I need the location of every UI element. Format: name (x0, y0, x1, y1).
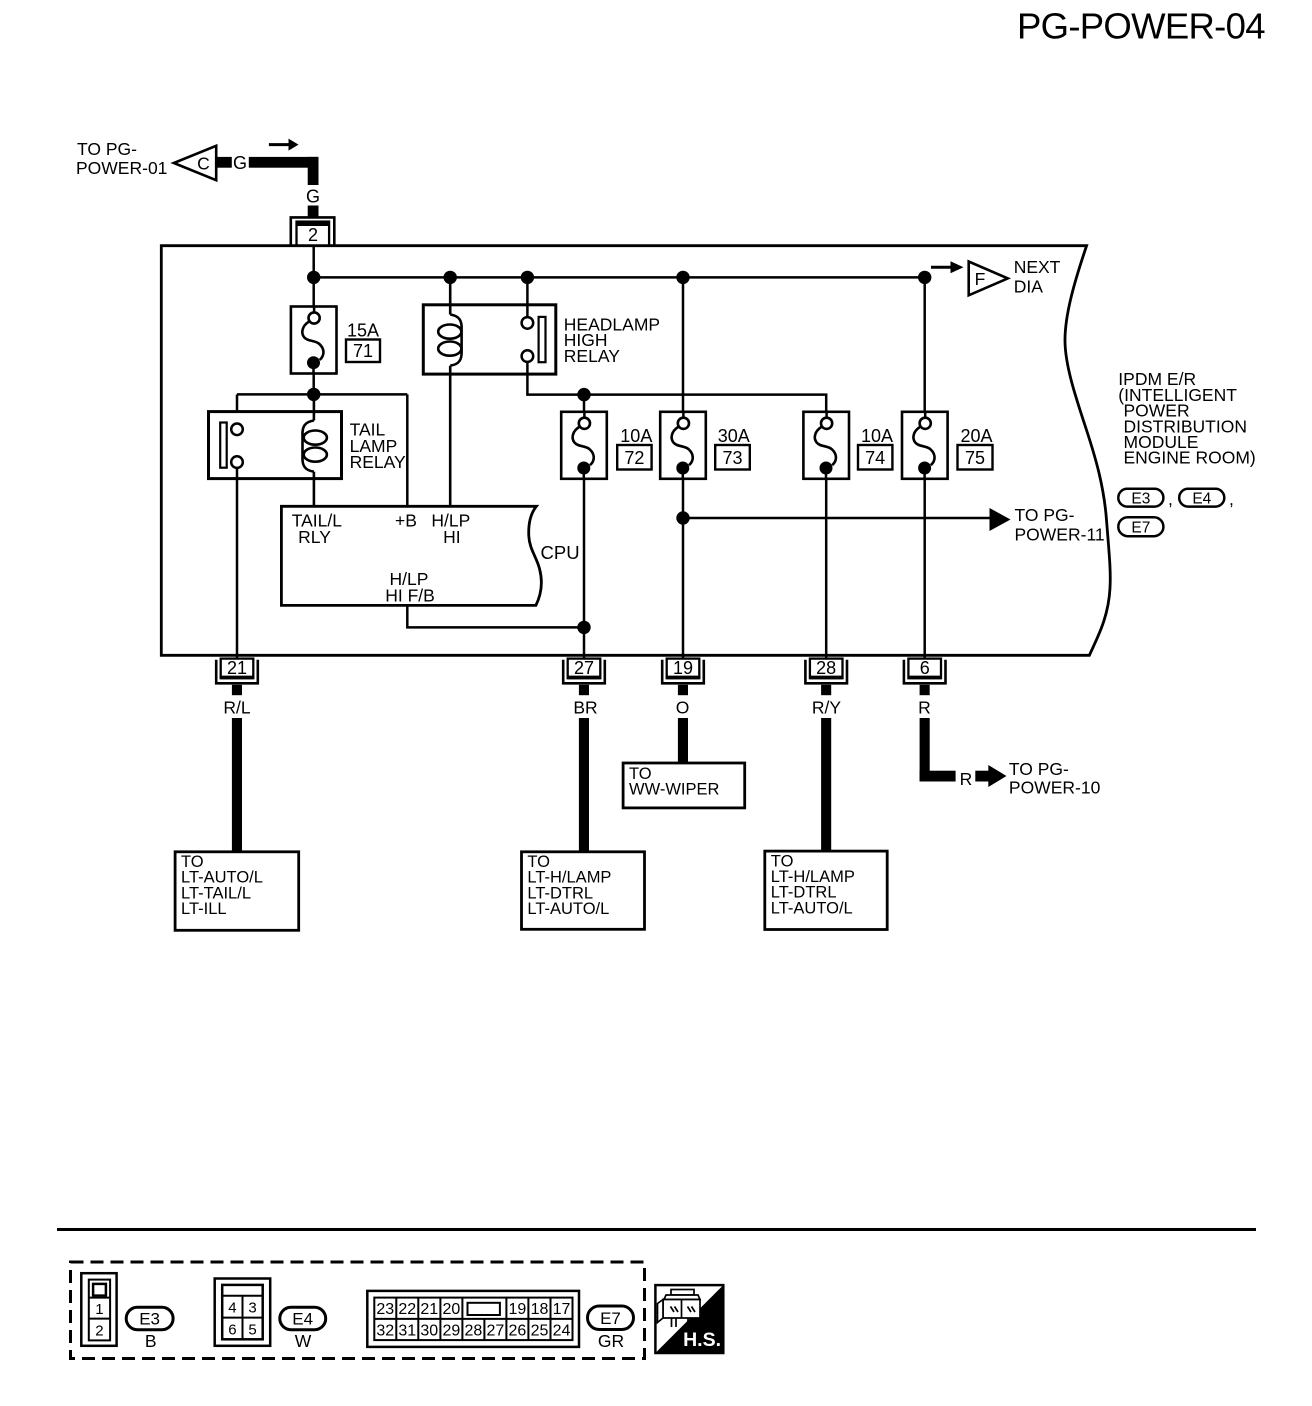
svg-text:6: 6 (920, 658, 930, 678)
svg-text:28: 28 (816, 658, 836, 678)
tail lamp relay contact circles (231, 424, 243, 436)
node junction dot bus/headlamp relay coil (444, 271, 457, 284)
node junction dot bus end/fuse75 (918, 271, 931, 284)
wire fuse 75 to connector 6 (923, 479, 926, 658)
svg-text:B: B (145, 1331, 157, 1351)
label 74 box (858, 445, 892, 470)
svg-text:,: , (1168, 489, 1173, 509)
IPDM E/R box outline (torn right edge) (161, 246, 1110, 656)
svg-text:R/Y: R/Y (812, 698, 842, 718)
connector 19 pin box (667, 659, 700, 679)
wire G thick vertical (308, 157, 319, 185)
svg-text:24: 24 (553, 1323, 571, 1340)
headlamp relay contact bar (539, 317, 546, 362)
relay: headlamp high relay box (423, 305, 556, 374)
svg-text:WW-WIPER: WW-WIPER (629, 781, 720, 799)
svg-text:POWER-11: POWER-11 (1015, 524, 1105, 544)
fuse 75 20A (902, 412, 948, 479)
label 72 box (617, 445, 651, 470)
fuse 74 10A (803, 412, 849, 479)
connector 21 shell (216, 660, 258, 684)
box TO LT-H/LAMP LT-DTRL LT-AUTO/L (left) (522, 852, 645, 930)
connector 28 pin box (810, 659, 843, 679)
wire tail relay feed horizontal (237, 393, 407, 396)
wire stub 21 (232, 685, 242, 695)
svg-text:POWER-01: POWER-01 (76, 158, 167, 178)
E7 column dividers bottom row (396, 1319, 550, 1340)
svg-text:27: 27 (487, 1323, 505, 1340)
wire to PG-POWER-11 (683, 517, 990, 520)
svg-text:5: 5 (248, 1321, 256, 1338)
CPU box (torn right edge) (281, 506, 541, 605)
wire fuse 72 to connector 27 (583, 479, 586, 658)
svg-text:HI: HI (443, 527, 461, 547)
connector face E7 inner (374, 1298, 572, 1341)
svg-text:17: 17 (553, 1301, 571, 1318)
wire fuse 71 to junction (312, 374, 315, 395)
svg-text:CPU: CPU (541, 542, 580, 563)
svg-text:H.S.: H.S. (683, 1329, 721, 1351)
svg-text:TO PG-: TO PG- (77, 139, 137, 159)
wire stub 27 (579, 685, 589, 695)
wire BR thick (579, 718, 589, 852)
fuse 72 10A (561, 412, 607, 479)
box TO LT-H/LAMP LT-DTRL LT-AUTO/L (right) (765, 851, 887, 929)
connector oval E4 legend (280, 1307, 326, 1329)
svg-text:10A: 10A (620, 426, 652, 446)
connector face E4 top band (222, 1295, 263, 1297)
H.S. icon connector glyph (658, 1290, 701, 1328)
H.S. icon square (655, 1285, 723, 1353)
node junction dot bus/headlamp relay contact (521, 271, 534, 284)
svg-text:C: C (197, 154, 210, 174)
connector 6 shell (904, 660, 946, 684)
legend dashed box (71, 1262, 645, 1359)
svg-text:E3: E3 (139, 1310, 160, 1329)
connector 28 shell (805, 660, 847, 684)
svg-text:R: R (960, 769, 973, 789)
svg-text:6: 6 (228, 1321, 236, 1338)
node junction dot fuse73/PG-POWER-11 (676, 511, 689, 524)
svg-text:20A: 20A (961, 426, 993, 446)
svg-text:RELAY: RELAY (350, 452, 406, 472)
thick arrow to PG-POWER-10 (975, 771, 989, 782)
triangle connector F next dia (969, 262, 1008, 296)
connector face E4 grid (242, 1296, 244, 1340)
svg-text:26: 26 (509, 1323, 527, 1340)
svg-text:29: 29 (443, 1323, 461, 1340)
svg-text:ENGINE ROOM): ENGINE ROOM) (1124, 448, 1256, 468)
E7 top row pin numbers (376, 1301, 570, 1318)
svg-text:RLY: RLY (298, 527, 331, 547)
node junction dot fuse71/tail relay (307, 388, 320, 401)
connector face E4 inner (222, 1285, 263, 1339)
connector face E3 inner (89, 1280, 110, 1341)
svg-text:32: 32 (376, 1323, 394, 1340)
svg-text:71: 71 (353, 341, 373, 361)
connector face E7 outer (367, 1291, 579, 1347)
svg-text:DIA: DIA (1014, 276, 1043, 296)
label 73 box (715, 445, 750, 470)
wire junction to fuse 72 (583, 395, 586, 412)
connector face E3 cell dividers (89, 1297, 110, 1299)
box TO LT-AUTO/L LT-TAIL/L LT-ILL (175, 852, 299, 931)
svg-text:18: 18 (531, 1301, 549, 1318)
wire G thick stub from triangle (216, 157, 232, 168)
svg-text:G: G (233, 153, 247, 173)
label 75 box (958, 445, 993, 470)
connector oval E7 legend (588, 1306, 634, 1330)
svg-text:R: R (918, 698, 931, 718)
wire R thick horizontal (920, 771, 956, 782)
svg-text:23: 23 (376, 1301, 394, 1318)
svg-text:74: 74 (865, 448, 885, 468)
svg-text:19: 19 (673, 658, 693, 678)
svg-text:PG-POWER-04: PG-POWER-04 (1017, 6, 1265, 47)
svg-text:19: 19 (509, 1301, 527, 1318)
connector face E3 tab (93, 1284, 106, 1296)
arrow over wire G (269, 143, 290, 146)
svg-text:25: 25 (531, 1323, 549, 1340)
arrow to next dia (931, 266, 952, 269)
svg-text:W: W (295, 1331, 312, 1351)
bus wire top (314, 276, 925, 279)
svg-text:,: , (1229, 489, 1234, 509)
wire stub 6 (920, 685, 930, 695)
wire connector 2 to fuse 71 (312, 246, 315, 307)
svg-text:LT-AUTO/L: LT-AUTO/L (527, 900, 609, 918)
svg-text:TO PG-: TO PG- (1009, 759, 1069, 779)
svg-text:72: 72 (624, 448, 644, 468)
svg-text:3: 3 (248, 1300, 256, 1317)
connector 2 pin box (297, 222, 330, 246)
node junction dot bus/fuse71 (307, 271, 320, 284)
wire stub 28 (821, 685, 831, 695)
fuse 73 30A (660, 412, 706, 479)
wire to tail relay contact (236, 394, 239, 423)
svg-text:E4: E4 (1192, 491, 1211, 508)
node junction dot bus/fuse73 (676, 271, 689, 284)
svg-text:E4: E4 (292, 1310, 313, 1329)
wire stub 19 (678, 685, 688, 695)
connector oval E4 (1179, 489, 1224, 507)
relay: tail lamp relay box (209, 412, 342, 479)
headlamp relay contact circles (526, 277, 529, 317)
wire G thick horizontal (249, 157, 319, 168)
wire R/Y thick (821, 718, 831, 851)
wire H/LP HI F/B output (407, 605, 584, 627)
svg-text:LT-ILL: LT-ILL (181, 900, 227, 918)
connector face E3 outer (81, 1273, 116, 1346)
svg-text:POWER-10: POWER-10 (1009, 777, 1101, 797)
svg-text:+B: +B (395, 511, 417, 531)
svg-text:31: 31 (398, 1323, 416, 1340)
arrowhead to PG-POWER-11 (990, 508, 1011, 531)
connector face E4 outer (215, 1279, 271, 1346)
svg-text:1: 1 (95, 1301, 103, 1318)
box TO WW-WIPER (623, 763, 745, 808)
connector 2 outer shell (291, 217, 335, 245)
connector oval E3 legend (126, 1307, 173, 1329)
wire R/L thick (232, 718, 242, 852)
svg-text:TO PG-: TO PG- (1015, 505, 1075, 525)
connector oval E7 (1118, 517, 1163, 536)
svg-text:15A: 15A (347, 321, 379, 341)
wire G stub into connector 2 (308, 206, 319, 217)
label 71 box (346, 340, 380, 363)
connector 6 pin box (908, 659, 941, 679)
svg-text:4: 4 (228, 1300, 236, 1317)
wire fuse 73 to connector 19 (682, 479, 685, 658)
svg-text:2: 2 (95, 1322, 103, 1339)
svg-text:O: O (676, 698, 690, 718)
connector oval E3 (1118, 489, 1163, 507)
node junction dot contact wire/fuse72 (577, 388, 590, 401)
wire O thick (678, 718, 688, 763)
wire bus to fuse 73 (682, 277, 685, 411)
svg-text:BR: BR (573, 698, 597, 718)
tail lamp relay contact bar (220, 423, 227, 468)
svg-text:2: 2 (308, 225, 318, 245)
svg-text:10A: 10A (861, 426, 893, 446)
wire bus to fuse 75 (923, 277, 926, 411)
svg-text:RELAY: RELAY (564, 346, 620, 366)
svg-text:30: 30 (420, 1323, 438, 1340)
svg-text:30A: 30A (718, 426, 750, 446)
E7 row divider (374, 1318, 572, 1320)
svg-text:HI F/B: HI F/B (385, 586, 435, 606)
svg-text:G: G (306, 187, 320, 207)
node junction dot F/B wire/fuse72 wire (577, 621, 590, 634)
connector 27 pin box (568, 659, 601, 679)
wire headlamp contact to fuses 72/74 (527, 362, 826, 412)
triangle connector C to PG-POWER-01 (174, 146, 216, 180)
svg-text:GR: GR (598, 1331, 624, 1351)
svg-text:E3: E3 (1131, 491, 1150, 508)
svg-text:E7: E7 (600, 1309, 621, 1328)
svg-text:20: 20 (443, 1301, 461, 1318)
connector 27 shell (563, 660, 605, 684)
svg-text:28: 28 (465, 1323, 483, 1340)
svg-text:21: 21 (420, 1301, 438, 1318)
svg-text:LT-AUTO/L: LT-AUTO/L (771, 899, 853, 917)
wire to CPU +B (406, 394, 409, 506)
E7 column dividers top row (396, 1298, 550, 1319)
wire R thick vertical (920, 718, 930, 782)
svg-text:73: 73 (722, 448, 742, 468)
E7 bottom row pin numbers (376, 1323, 570, 1340)
svg-text:21: 21 (227, 658, 247, 678)
connector 21 pin box (221, 659, 254, 679)
wire fuse 74 to connector 28 (825, 479, 828, 658)
svg-text:75: 75 (965, 448, 985, 468)
wire tail relay contact to connector 21 (236, 468, 239, 658)
E7 blank slot (468, 1303, 500, 1315)
H.S. icon black triangle (655, 1285, 723, 1353)
headlamp relay coil (438, 277, 461, 506)
svg-text:27: 27 (574, 658, 594, 678)
svg-text:NEXT: NEXT (1014, 257, 1061, 277)
svg-text:F: F (975, 269, 986, 289)
svg-text:E7: E7 (1131, 520, 1150, 537)
svg-text:R/L: R/L (223, 698, 251, 718)
connector 19 shell (662, 660, 704, 684)
fuse 71 15A (291, 307, 337, 374)
separator line (57, 1228, 1256, 1231)
tail lamp relay coil (302, 394, 326, 506)
svg-text:22: 22 (398, 1301, 416, 1318)
